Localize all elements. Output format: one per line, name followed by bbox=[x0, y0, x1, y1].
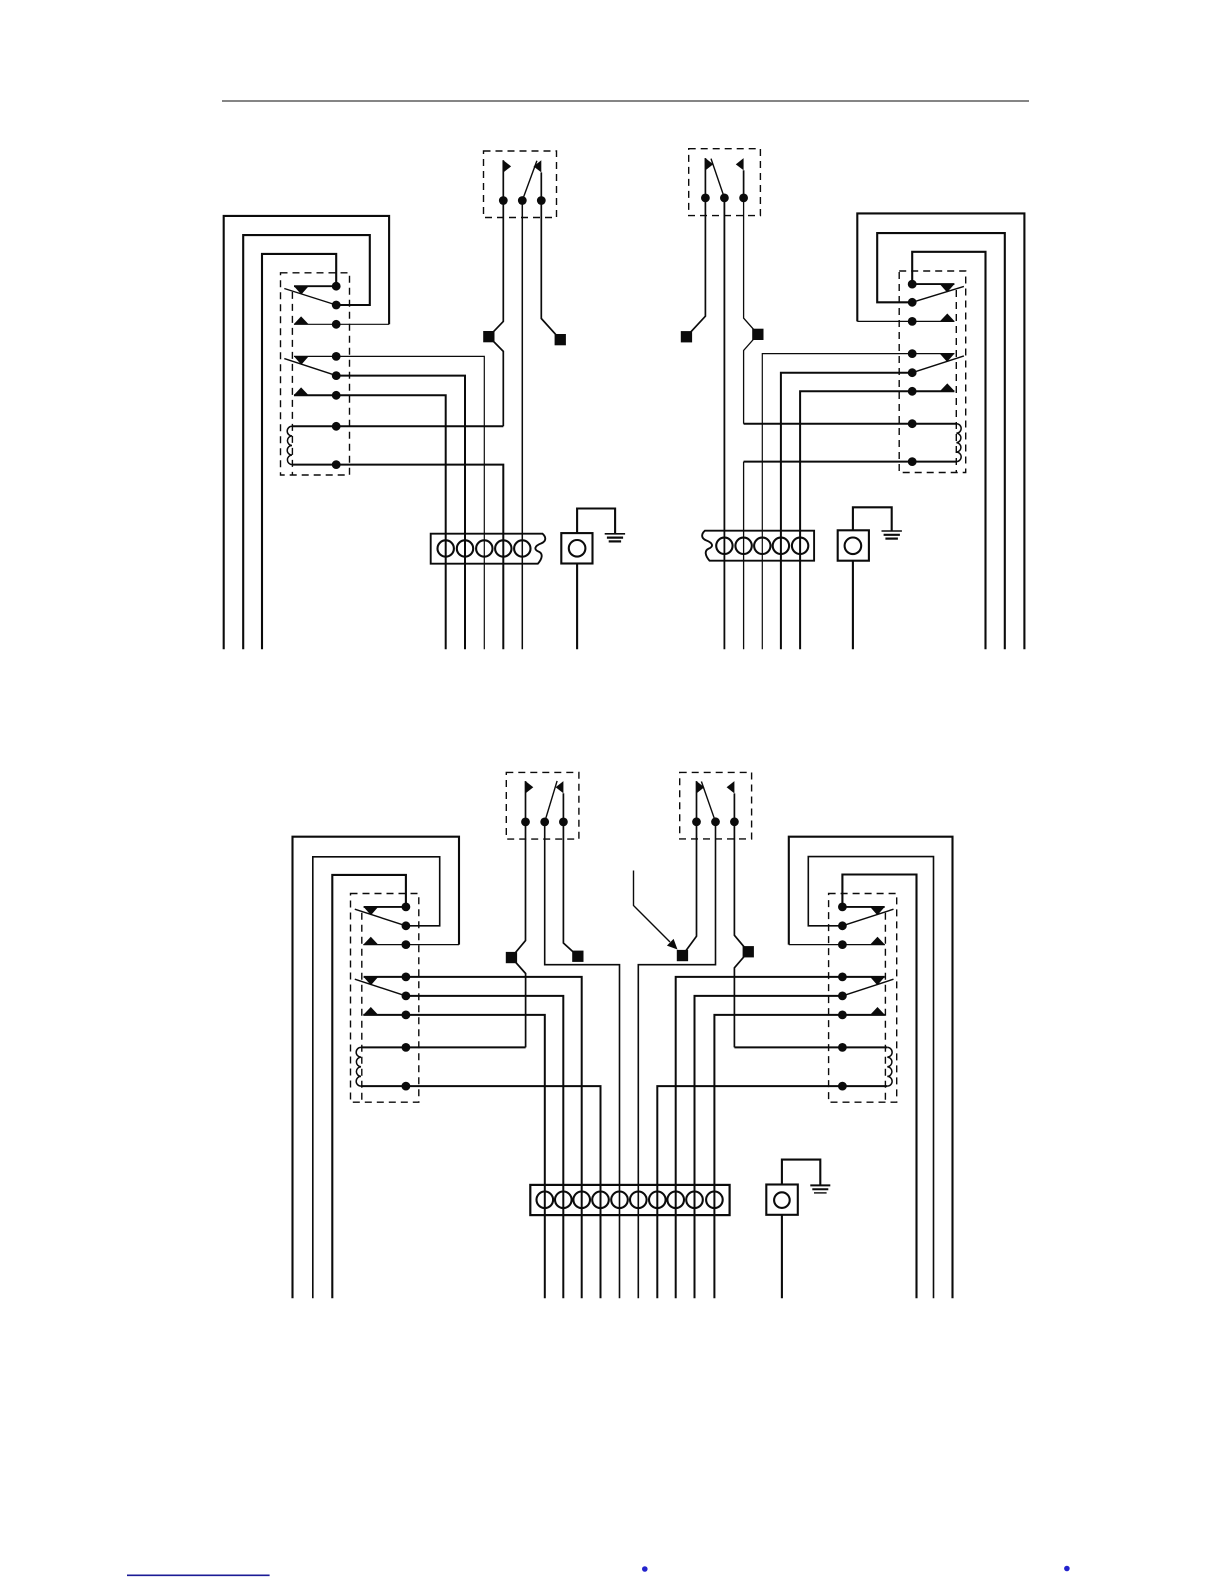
contact dot K1-1 bbox=[332, 282, 341, 291]
wire K2 pin 5 to terminal 4 bbox=[781, 373, 912, 650]
annotation arrow line bbox=[634, 871, 671, 943]
relay coil K2 bbox=[956, 424, 961, 462]
terminal circle X1-3 bbox=[476, 540, 492, 556]
changeover blade K3 lower bbox=[355, 979, 406, 996]
switch blade S4 bbox=[701, 782, 715, 822]
connector square J8 bbox=[743, 946, 754, 957]
contact dot K3-7 coil top bbox=[402, 1043, 411, 1052]
wire inner loop to K2 pin 1 bbox=[912, 252, 985, 649]
switch blade S3 bbox=[545, 781, 557, 822]
wire S2 pin 1 to connector J3 bbox=[686, 198, 705, 337]
ground symbol bar 3 right bbox=[885, 537, 898, 539]
connector square J1 bbox=[483, 331, 494, 342]
contact dot S2-2 bbox=[720, 194, 729, 203]
contact dot K4-6 bbox=[838, 1011, 847, 1020]
footer hyperlink rule bbox=[127, 1574, 270, 1576]
flag contact S1-3 bbox=[534, 160, 542, 172]
terminal circle X3-4 bbox=[592, 1192, 609, 1209]
contact dot K4-1 bbox=[838, 903, 847, 912]
changeover blade K3 upper bbox=[355, 909, 406, 926]
NO triangle contact K1-3 bbox=[294, 316, 309, 324]
contact dot S4-1 bbox=[692, 817, 701, 826]
wire coil top to node B bbox=[744, 423, 957, 425]
wire coil top to node A bbox=[292, 425, 503, 427]
connector square J2 (dead end) bbox=[555, 334, 566, 345]
contact dot K4-5 bbox=[838, 992, 847, 1001]
wire K2 pin 4 to terminal 3 bbox=[762, 354, 954, 650]
switch S2 dashed enclosure bbox=[689, 149, 761, 216]
contact dot K2-3 bbox=[908, 317, 917, 326]
wire K2 pivot line contact 1 bbox=[912, 283, 954, 285]
wire K3 pin 4 to terminal 3 bbox=[364, 977, 582, 1298]
wire inner loop to K4 pin 1 bbox=[842, 875, 916, 1299]
wire K1 pivot line contact 1 bbox=[294, 285, 336, 287]
flag contact S2-3 bbox=[736, 158, 744, 170]
contact dot S3-2 bbox=[540, 818, 549, 827]
contact dot S2-1 bbox=[701, 194, 710, 203]
NC flag contact K2-1 bbox=[940, 284, 955, 292]
contact dot S3-3 bbox=[559, 818, 568, 827]
contact dot S4-2 bbox=[711, 817, 720, 826]
NC flag contact K1-1 bbox=[294, 286, 309, 294]
flag contact S1-1 bbox=[503, 160, 511, 172]
NO triangle contact K3-3 bbox=[363, 937, 378, 945]
wire S1 pin 2 to terminal 5 bbox=[521, 201, 523, 650]
relay K3 dashed enclosure bbox=[351, 894, 419, 1103]
wire outer loop to K2 pin 3 bbox=[857, 213, 1024, 649]
contact dot S1-1 bbox=[499, 196, 508, 205]
terminal circle X3-5 bbox=[611, 1192, 628, 1209]
terminal strip X1 body bbox=[431, 534, 546, 564]
contact dot K3-8 coil bottom bbox=[402, 1082, 411, 1091]
contact dot K4-2 bbox=[838, 921, 847, 930]
wire middle loop to K1 pin 2 bbox=[243, 235, 370, 649]
contact dot K3-3 bbox=[402, 940, 411, 949]
NO triangle contact K2-3 bbox=[940, 314, 955, 322]
wire S4 pin 1 stub bbox=[696, 781, 698, 822]
flag contact S4-3 bbox=[727, 781, 735, 793]
relay K3 inner dashed boundary bbox=[361, 913, 363, 1102]
wire middle loop to K4 pin 2 bbox=[808, 857, 933, 1299]
ground symbol bar 1 right bbox=[882, 530, 902, 532]
terminal circle X3-1 bbox=[537, 1192, 554, 1209]
contact dot K1-7 coil top bbox=[332, 422, 341, 431]
annotation arrowhead bbox=[667, 939, 678, 950]
wire K4 pivot line contact 1 bbox=[842, 906, 884, 908]
NC flag contact K4-1 bbox=[870, 907, 885, 915]
contact dot K2-2 bbox=[908, 298, 917, 307]
switch S1 dashed enclosure bbox=[484, 151, 557, 218]
changeover blade K2 lower bbox=[912, 356, 964, 373]
wire coil top to node C bbox=[361, 1046, 526, 1048]
relay K2 inner dashed boundary bbox=[955, 290, 957, 473]
wire coil bottom to terminal 7 bbox=[657, 1086, 887, 1298]
contact dot S2-3 bbox=[739, 194, 748, 203]
changeover blade K4 upper bbox=[842, 909, 893, 926]
header rule bbox=[222, 100, 1029, 102]
ground symbol bar 2 right bbox=[884, 534, 900, 536]
ground terminal G1 box bbox=[561, 533, 592, 563]
ground symbol bar 3 bbox=[609, 540, 621, 542]
wire inner loop to K1 pin 1 bbox=[262, 254, 336, 649]
wire terminal 2 drop bbox=[743, 462, 745, 650]
contact dot S4-3 bbox=[730, 817, 739, 826]
wire K3 pivot line contact 1 bbox=[364, 906, 406, 908]
contact dot K2-5 bbox=[908, 368, 917, 377]
terminal circle X3-9 bbox=[686, 1192, 703, 1209]
ground symbol bar 1 bottom bbox=[810, 1184, 830, 1186]
wire coil bottom to terminal 4 bbox=[292, 465, 503, 650]
NC flag contact K2-4 bbox=[940, 354, 955, 362]
flag contact S4-1 bbox=[697, 781, 705, 793]
ground terminal G2 circle bbox=[845, 538, 862, 555]
flag contact S2-1 bbox=[705, 158, 713, 170]
terminal circle X1-4 bbox=[495, 540, 511, 556]
changeover blade K1 upper bbox=[284, 289, 336, 306]
wire K3 pin 6 to terminal 1 bbox=[363, 1015, 545, 1298]
relay K4 dashed enclosure bbox=[829, 894, 897, 1103]
contact dot K1-6 bbox=[332, 391, 341, 400]
wire S2 pin 3 stub bbox=[743, 170, 745, 198]
NC flag contact K4-4 bbox=[870, 977, 885, 985]
ground symbol bar 2 bottom bbox=[812, 1188, 828, 1190]
wire G1 to ground bbox=[577, 509, 615, 534]
wire G2 to ground bbox=[853, 507, 892, 530]
ground symbol bar 1 bbox=[605, 533, 625, 535]
wire coil bottom to terminal 2 bbox=[744, 461, 957, 463]
flag contact S3-3 bbox=[556, 781, 564, 793]
wire S2 pin 3 to node B via connector bbox=[744, 198, 758, 424]
wire S1 pin 1 to node A via connector bbox=[489, 201, 504, 427]
changeover blade K4 lower bbox=[842, 979, 893, 996]
wire K1 pin 3 contact line bbox=[294, 323, 389, 325]
wire K2 pin 3 contact line bbox=[857, 320, 954, 322]
wire S3 pin 3 to connector J6 bbox=[563, 822, 578, 956]
switch blade S2 bbox=[711, 159, 724, 198]
wire coil bottom to terminal 4 bbox=[361, 1086, 601, 1298]
relay K1 dashed enclosure bbox=[281, 273, 350, 475]
ground terminal G3 box bbox=[766, 1185, 798, 1215]
wire middle loop to K2 pin 2 bbox=[877, 233, 1005, 649]
terminal circle X2-4 bbox=[773, 538, 789, 554]
contact dot S3-1 bbox=[521, 818, 530, 827]
wire outer loop to K4 pin 3 bbox=[789, 837, 953, 1299]
terminal circle X3-3 bbox=[573, 1192, 590, 1209]
connector square J3 (dead end) bbox=[681, 331, 692, 342]
contact dot K3-1 bbox=[402, 903, 411, 912]
wire outer loop to K3 pin 3 bbox=[293, 837, 460, 1299]
ground terminal G3 circle bbox=[774, 1192, 790, 1208]
wire below G3 bbox=[781, 1215, 783, 1299]
wire K1 pin 5 to terminal 2 bbox=[336, 376, 465, 650]
wire S3 pin 2 to terminal 5 bbox=[545, 822, 620, 1298]
NC flag contact K3-4 bbox=[364, 977, 379, 985]
changeover blade K2 upper bbox=[912, 286, 964, 302]
terminal circle X3-2 bbox=[555, 1192, 572, 1209]
terminal circle X2-5 bbox=[792, 538, 808, 554]
contact dot K2-7 coil top bbox=[908, 419, 917, 428]
wire K1 pin 4 to terminal 3 bbox=[294, 356, 484, 649]
wire below G1 bbox=[576, 564, 578, 650]
wire S4 pin 3 stub bbox=[733, 793, 735, 821]
NO triangle contact K4-3 bbox=[870, 937, 885, 945]
connector square J5 bbox=[506, 952, 517, 963]
contact dot K3-6 bbox=[402, 1011, 411, 1020]
terminal circle X2-2 bbox=[735, 538, 751, 554]
wire S3 pin 3 stub bbox=[562, 793, 564, 822]
wire K4 pin 5 to terminal 9 bbox=[695, 996, 843, 1298]
terminal circle X3-8 bbox=[667, 1192, 684, 1209]
contact dot K4-8 coil bottom bbox=[838, 1082, 847, 1091]
contact dot K1-5 bbox=[332, 371, 341, 380]
connector square J6 (dead end) bbox=[572, 951, 583, 962]
contact dot K3-5 bbox=[402, 992, 411, 1001]
NO triangle contact K2-6 bbox=[940, 383, 955, 391]
terminal circle X1-1 bbox=[438, 540, 454, 556]
relay coil K4 bbox=[887, 1047, 892, 1086]
contact dot K3-4 bbox=[402, 973, 411, 982]
contact dot K4-3 bbox=[838, 940, 847, 949]
relay K2 dashed enclosure bbox=[899, 271, 966, 473]
wire inner loop to K3 pin 1 bbox=[332, 875, 406, 1298]
relay K1 inner dashed boundary bbox=[291, 292, 293, 475]
wire outer loop to K1 pin 3 bbox=[224, 216, 389, 649]
wire K4 pin 4 to terminal 8 bbox=[676, 977, 885, 1298]
NO triangle contact K4-6 bbox=[870, 1007, 885, 1015]
wire K4 pin 6 to terminal 10 bbox=[714, 1015, 885, 1298]
switch S3 dashed enclosure bbox=[506, 772, 579, 839]
contact dot K1-3 bbox=[332, 320, 341, 329]
contact dot S1-2 bbox=[518, 196, 527, 205]
footer blue dot left bbox=[642, 1566, 648, 1572]
contact dot K3-2 bbox=[402, 921, 411, 930]
contact dot K4-7 coil top bbox=[838, 1043, 847, 1052]
terminal circle X3-6 bbox=[630, 1192, 647, 1209]
wire S4 pin 2 to terminal 6 bbox=[638, 822, 715, 1299]
wire S3 pin 1 stub bbox=[525, 781, 527, 822]
switch blade S1 bbox=[522, 161, 537, 201]
flag contact S3-1 bbox=[526, 781, 534, 793]
changeover blade K1 lower bbox=[284, 359, 336, 376]
wire S4 pin 1 to connector J7 bbox=[682, 822, 696, 956]
terminal circle X2-1 bbox=[716, 538, 732, 554]
NC flag contact K3-1 bbox=[364, 907, 379, 915]
wire K1 pin 6 to terminal 1 bbox=[294, 395, 446, 649]
wire S1 pin 1 stub bbox=[502, 160, 504, 200]
wire S4 pin 3 to node D via connector bbox=[734, 822, 748, 1048]
wire S1 pin 3 stub bbox=[540, 172, 542, 200]
wire middle loop to K3 pin 2 bbox=[313, 857, 440, 1299]
contact dot K1-8 coil bottom bbox=[332, 460, 341, 469]
relay coil K3 bbox=[356, 1047, 361, 1086]
terminal circle X3-7 bbox=[649, 1192, 666, 1209]
contact dot K2-1 bbox=[908, 280, 917, 289]
wire S1 pin 3 to connector J2 bbox=[541, 201, 560, 340]
connector square J4 bbox=[752, 329, 763, 340]
connector square J7 (dead end) bbox=[677, 950, 688, 961]
ground terminal G2 box bbox=[838, 530, 869, 560]
NO triangle contact K1-6 bbox=[294, 387, 309, 395]
terminal strip X2 body bbox=[702, 531, 814, 561]
ground symbol bar 3 bottom bbox=[814, 1192, 827, 1194]
wire K4 pin 3 contact line bbox=[789, 944, 885, 946]
wire S2 pin 2 to terminal 1 bbox=[723, 198, 725, 649]
contact dot K4-4 bbox=[838, 973, 847, 982]
footer blue dot right bbox=[1064, 1566, 1070, 1572]
wire K2 pin 6 to terminal 5 bbox=[800, 391, 954, 649]
wire below G2 bbox=[852, 561, 854, 650]
contact dot K1-4 bbox=[332, 352, 341, 361]
terminal strip X3 body bbox=[530, 1185, 729, 1215]
relay K4 inner dashed boundary bbox=[884, 913, 886, 1102]
contact dot K2-8 coil bottom bbox=[908, 457, 917, 466]
wire K3 pin 3 contact line bbox=[363, 944, 459, 946]
wire coil top to node D bbox=[734, 1046, 887, 1048]
wire S3 pin 1 to node C via connector bbox=[511, 822, 525, 1048]
switch S4 dashed enclosure bbox=[680, 772, 752, 839]
contact dot S1-3 bbox=[537, 196, 546, 205]
terminal circle X1-5 bbox=[514, 540, 530, 556]
wire G3 to ground bbox=[782, 1160, 820, 1185]
contact dot K2-6 bbox=[908, 387, 917, 396]
ground symbol bar 2 bbox=[607, 536, 623, 538]
wire K3 pin 5 to terminal 2 bbox=[406, 996, 563, 1298]
contact dot K1-2 bbox=[332, 301, 341, 310]
contact dot K2-4 bbox=[908, 349, 917, 358]
terminal circle X3-10 bbox=[706, 1192, 723, 1209]
NO triangle contact K3-6 bbox=[363, 1007, 378, 1015]
wire S2 pin 1 stub bbox=[704, 158, 706, 198]
relay coil K1 bbox=[287, 426, 292, 464]
terminal circle X2-3 bbox=[754, 538, 770, 554]
ground terminal G1 circle bbox=[569, 540, 586, 557]
terminal circle X1-2 bbox=[457, 540, 473, 556]
NC flag contact K1-4 bbox=[294, 356, 309, 364]
